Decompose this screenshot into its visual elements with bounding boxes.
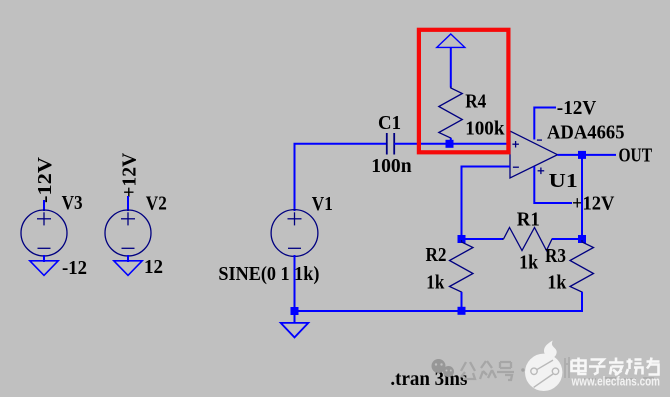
ground (V3) <box>30 261 58 276</box>
svg-text:C1: C1 <box>378 112 401 134</box>
wire <box>581 292 583 312</box>
resistor R2 <box>450 240 474 294</box>
node junction (R2 / R1 / inverting) <box>458 235 466 243</box>
power flag (R4 top) <box>437 34 465 47</box>
wire <box>294 143 387 145</box>
wire <box>127 255 129 262</box>
svg-text:U1: U1 <box>549 170 578 192</box>
watermark logo circle <box>525 341 562 391</box>
node junction (V1 bottom) <box>291 307 299 315</box>
ground (V2) <box>114 261 142 276</box>
svg-text:-12: -12 <box>62 257 87 279</box>
svg-text:V1: V1 <box>312 193 333 215</box>
svg-text:.tran 3ms: .tran 3ms <box>390 368 467 390</box>
node junction (output) <box>578 151 586 159</box>
wire <box>581 155 583 239</box>
svg-text:1k: 1k <box>547 272 567 294</box>
wire <box>450 138 452 144</box>
wire <box>294 144 296 211</box>
watermark brand text dian <box>572 358 587 375</box>
watermark text gong <box>461 362 475 379</box>
svg-text:1k: 1k <box>519 252 539 274</box>
svg-text:12: 12 <box>144 256 163 278</box>
op-amp U1 <box>510 131 558 178</box>
wire <box>294 311 296 323</box>
ground (main) <box>281 323 309 338</box>
svg-text:www.elecfans.com: www.elecfans.com <box>571 375 660 389</box>
svg-text:-12V: -12V <box>34 156 56 203</box>
resistor R1 <box>502 228 554 251</box>
svg-text:V2: V2 <box>146 193 167 215</box>
watermark brand text shao <box>626 359 643 375</box>
svg-text:1k: 1k <box>426 272 445 294</box>
resistor R4 <box>439 87 463 141</box>
node junction (C1 / R4 / opamp +) <box>446 140 454 148</box>
svg-text:SINE(0 1 1k): SINE(0 1 1k) <box>218 263 319 285</box>
watermark text zhong <box>480 361 496 379</box>
svg-text:V3: V3 <box>62 192 83 214</box>
svg-text:100n: 100n <box>371 155 411 177</box>
wire (bottom rail) <box>295 310 583 312</box>
wire (V- pin) <box>534 108 556 140</box>
wire <box>461 292 463 311</box>
watermark wechat icon <box>432 359 455 377</box>
wire <box>43 200 45 211</box>
watermark text hao <box>497 362 514 380</box>
node junction (R2 bottom) <box>458 307 466 315</box>
watermark dot <box>521 368 524 371</box>
voltage source V2 <box>105 210 151 256</box>
voltage source V3 <box>21 210 67 256</box>
resistor R3 <box>570 240 594 294</box>
svg-text:R1: R1 <box>517 209 540 231</box>
wire <box>43 255 45 262</box>
wire (V+ pin) <box>534 167 572 204</box>
svg-text:-12V: -12V <box>557 97 597 119</box>
svg-text:R4: R4 <box>465 91 486 113</box>
highlight box around R4 <box>419 30 509 153</box>
watermark brand text zi <box>589 360 606 375</box>
voltage source V1 <box>271 210 318 257</box>
svg-text:R2: R2 <box>426 244 447 266</box>
wire (output) <box>558 154 617 156</box>
wire <box>462 238 504 240</box>
watermark brand text fa <box>609 358 624 376</box>
watermark brand text you <box>647 358 660 375</box>
svg-text:OUT: OUT <box>619 145 653 167</box>
capacitor C1 <box>387 133 394 155</box>
wire <box>552 238 582 240</box>
svg-text:100k: 100k <box>465 118 505 140</box>
node junction (R1 / R3 / OUT) <box>578 235 586 243</box>
wire (inverting input) <box>462 167 511 240</box>
watermark gray echo strokes <box>565 357 654 379</box>
svg-text:+12V: +12V <box>572 193 615 215</box>
wire <box>450 47 452 87</box>
svg-text:+12V: +12V <box>119 152 141 198</box>
wire <box>294 255 296 311</box>
wire <box>394 143 510 145</box>
svg-text:R3: R3 <box>545 245 566 267</box>
wire <box>127 196 129 211</box>
svg-text:ADA4665: ADA4665 <box>547 122 625 144</box>
